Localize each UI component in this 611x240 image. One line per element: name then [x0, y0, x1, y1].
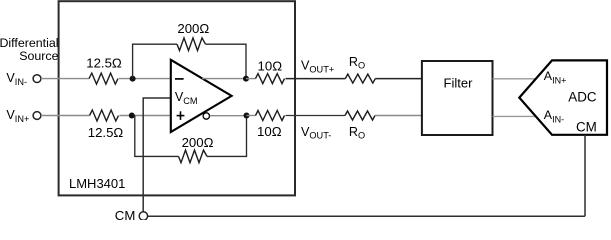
wire 10ohm top to RO — [286, 78, 346, 80]
wire feedback bottom right — [207, 116, 247, 157]
wire R2 to opamp — [120, 115, 171, 117]
svg-text:200Ω: 200Ω — [182, 135, 214, 150]
label Differential Source — [0, 36, 59, 63]
wire opamp out- — [210, 115, 247, 117]
resistor R 12.5 bottom — [90, 110, 119, 121]
svg-text:10Ω: 10Ω — [258, 58, 283, 73]
resistor 200 top — [177, 38, 206, 51]
wire VIN+ to R2 — [41, 115, 90, 117]
wire 10ohm bottom to RO — [286, 115, 346, 117]
opamp plus — [177, 111, 185, 120]
wire RO top to filter — [375, 78, 422, 80]
svg-text:10Ω: 10Ω — [257, 124, 282, 139]
node dot top-left — [130, 76, 136, 82]
svg-text:CM: CM — [115, 208, 136, 220]
opamp minus — [175, 78, 184, 80]
resistor RO bottom — [345, 111, 375, 120]
terminal VIN- — [33, 75, 41, 83]
resistor RO top — [345, 74, 375, 83]
resistor 200 bottom — [179, 150, 208, 163]
wire filter to AIN- — [493, 115, 536, 117]
ADC U2 — [519, 60, 607, 134]
wire out- to 10ohm — [247, 115, 256, 117]
wire VIN- to R1 — [41, 78, 89, 80]
resistor R 12.5 top — [89, 73, 118, 84]
wire R1 to opamp — [119, 78, 171, 80]
wire feedback top loop — [133, 44, 177, 78]
svg-text:CM: CM — [576, 119, 597, 134]
resistor 10 bottom — [256, 111, 285, 121]
terminal VIN+ — [33, 112, 41, 120]
svg-text:12.5Ω: 12.5Ω — [88, 125, 124, 140]
output bubble — [203, 113, 209, 119]
node dot bottom-left — [129, 113, 135, 119]
box LMH3401 — [59, 1, 295, 195]
node dot out+ — [243, 76, 249, 82]
wire CM horizontal — [148, 215, 585, 217]
svg-text:200Ω: 200Ω — [177, 21, 209, 36]
wire out+ to 10ohm — [246, 78, 256, 80]
svg-text:Filter: Filter — [444, 76, 474, 91]
wire RO bottom to filter — [375, 115, 422, 117]
terminal CM — [139, 212, 147, 220]
resistor 10 top — [256, 74, 285, 84]
svg-text:Source: Source — [19, 49, 58, 63]
op-amp U1 — [171, 60, 232, 132]
wire feedback top right — [206, 44, 247, 78]
node dot out- — [244, 113, 250, 119]
svg-text:12.5Ω: 12.5Ω — [86, 56, 122, 71]
wire VCM pin — [143, 98, 171, 212]
wire feedback bottom loop — [135, 116, 179, 157]
svg-text:ADC: ADC — [568, 89, 597, 104]
wire opamp out+ — [202, 78, 246, 80]
box Filter — [422, 61, 493, 135]
wire filter to AIN+ — [493, 78, 537, 80]
wire CM vertical from ADC — [584, 135, 586, 216]
svg-text:LMH3401: LMH3401 — [69, 176, 125, 191]
